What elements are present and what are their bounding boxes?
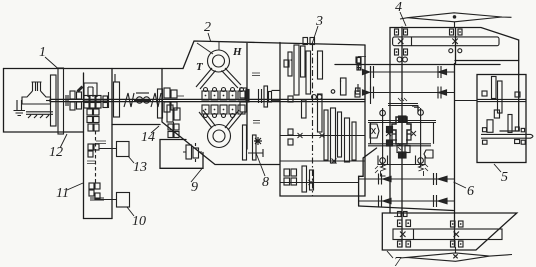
wire unit 4 lower line a (455, 60, 519, 62)
rail 1 gap bars right (438, 66, 441, 78)
gear row lower bumps (204, 114, 208, 118)
tiny ratio annotation e (394, 216, 400, 218)
bearing circle top right (418, 110, 424, 116)
x mark bar 4 right (452, 39, 458, 45)
rail 3 left gap bars (379, 174, 382, 185)
node strip 11 left edge (83, 73, 85, 219)
gear row on strip top (84, 96, 89, 102)
gear pair dots unit 7 (399, 222, 401, 224)
shaft tick pair (108, 92, 110, 108)
index tag right (424, 150, 433, 158)
box unit 2 outline (162, 69, 279, 165)
leader 8 (256, 153, 265, 176)
gear square 5-8 (483, 128, 487, 132)
gear cluster in box 9 (186, 145, 192, 159)
gear pair 7 below-left (398, 241, 403, 247)
leader 2 (208, 33, 211, 41)
gear bar 5-3 (487, 120, 493, 133)
gear pair 4 below-bar-left (395, 49, 399, 55)
rail 3 arrow (438, 176, 447, 182)
wire housing outline left of table (359, 148, 377, 206)
wire belt shaft (134, 100, 151, 102)
leader 1 (45, 57, 59, 69)
gear bar 3-13 (345, 118, 350, 162)
gear dots box 2 rows (205, 95, 207, 97)
wire main horizontal shaft (50, 99, 365, 101)
gear bar 5-1 (492, 77, 497, 99)
platform end wall left (370, 123, 372, 144)
rail 2 gap bars right (438, 87, 441, 99)
gearbox 3 centre line (312, 45, 314, 196)
leader 4 (400, 12, 406, 26)
rail 2 link tie (357, 84, 359, 92)
leader 14 (151, 126, 159, 133)
circle pair 3 (312, 95, 317, 100)
gear square 5-13 (521, 140, 525, 144)
rail 3 gap bars (434, 173, 437, 185)
gear bar 3-4 (306, 51, 311, 94)
shaft of motor (46, 100, 51, 102)
x mark bar 4 left (398, 39, 404, 45)
svg-text:5: 5 (501, 170, 508, 185)
gear train strip 11 middle (88, 144, 93, 150)
gear pair 7 above-right (451, 221, 456, 227)
gear bar 3-11 (331, 108, 336, 163)
bar 7 divider (413, 229, 415, 240)
table gear pair below (397, 146, 402, 153)
clutch fork bracket (84, 83, 97, 97)
box unit 2 top (183, 41, 365, 149)
svg-text:14: 14 (141, 130, 155, 145)
wire unit 4 lower line b (335, 64, 500, 66)
coupling gap right of box 2 (259, 89, 262, 103)
mesh x 3a (298, 133, 303, 138)
tiny ratio annotation b (87, 161, 96, 164)
bearing circle bottom right (418, 158, 424, 164)
index tag left (370, 124, 379, 138)
wire shaft to box 5 (455, 100, 478, 102)
gear square 3-17 (284, 178, 290, 185)
leader 5 (494, 164, 501, 172)
leader 7 (387, 251, 393, 258)
gear pair 4 top-left (395, 29, 399, 35)
feed rail 2 (363, 92, 455, 94)
pen stroke mark (77, 86, 83, 92)
wire housing bottom edge (359, 206, 454, 211)
svg-text:4: 4 (395, 0, 402, 15)
mesh x 3c (332, 159, 337, 164)
worm pair above centre (399, 116, 402, 122)
gear bar 3-1 (288, 52, 292, 76)
wire wheel to top edge box 2 (197, 42, 219, 55)
wire rail gap connector (370, 66, 372, 104)
clutch disc 2 (58, 68, 64, 134)
gear train strip 11 lower (89, 183, 94, 189)
wire screw to gear 7 (455, 247, 457, 253)
box unit 5 outline (477, 75, 526, 163)
box 10 (117, 193, 130, 208)
wire shaft 3 low (280, 160, 365, 162)
svg-text:10: 10 (132, 214, 146, 229)
differential post right (420, 108, 422, 167)
gear bar 3-8 (302, 100, 307, 118)
adjust star 8 (254, 137, 262, 145)
svg-text:9: 9 (191, 180, 198, 195)
gear pair on box3 edge rail1 (356, 57, 361, 63)
gearbox 2 top wheel inner (213, 55, 225, 67)
gear bar 3-14 (352, 122, 356, 160)
gear square 3-20 (288, 129, 293, 135)
svg-text:3: 3 (315, 14, 323, 29)
rail 4 arrow (438, 198, 447, 204)
wire top line of unit 1 (4, 68, 184, 70)
gear pair on box3 edge rail2 (356, 88, 361, 94)
tiny ratio annotation d (358, 56, 366, 58)
gear square 5-6 (482, 91, 487, 96)
leader 10 (127, 207, 134, 216)
node strip 11 right edge (111, 69, 113, 219)
wire shaft 3 mid (280, 135, 365, 137)
wire shaft 3 bottom (280, 182, 358, 184)
rail 1 arrow right (439, 69, 447, 74)
gear bar 8a (243, 125, 247, 160)
pulley bar (114, 82, 120, 117)
gear square 5-7 (515, 92, 520, 97)
bed bar divider (411, 37, 413, 46)
worm shaft bottom (388, 164, 417, 166)
gear bar 3-22 (357, 58, 361, 64)
wire belt region bottom (112, 124, 160, 126)
leader 9 (191, 169, 202, 183)
lead screw diamond top (400, 13, 512, 22)
leader 3 (312, 26, 318, 44)
motor M1 base (26, 112, 53, 118)
hanging gear pair 14 (167, 105, 173, 122)
rail 2 arrow left (363, 90, 370, 95)
gear pair 7 top edge (398, 212, 402, 217)
mesh x 3b (320, 133, 325, 138)
hatch below left bearing (375, 166, 378, 173)
gearbox 2 top wheel outer (208, 50, 230, 72)
leader 12 (60, 134, 67, 148)
box unit 7 outline (382, 213, 517, 250)
gear bar 3-5 (318, 51, 323, 79)
table drive top bars (388, 104, 418, 106)
box unit 3 outline (280, 43, 365, 197)
svg-text:2: 2 (204, 20, 211, 35)
bearing circle top left (380, 110, 386, 116)
wire vertical shaft A (x=402) (401, 27, 403, 247)
ground symbol (14, 100, 26, 116)
gear bar 5-4 (494, 110, 499, 118)
table platform lower bar (368, 144, 431, 146)
motor M1 stepped body (22, 91, 51, 104)
svg-text:7: 7 (394, 255, 402, 267)
box unit 9 outline (160, 140, 203, 169)
gear pair 7 above-left (398, 220, 403, 227)
wire strip 11 bottom (84, 218, 113, 220)
spring post left (381, 163, 386, 176)
box 13 (117, 142, 130, 157)
dashed feed shaft 14 (173, 122, 175, 138)
gear row upper bumps (204, 88, 208, 92)
svg-text:12: 12 (49, 145, 63, 160)
spring post right (419, 163, 424, 176)
differential cross body (392, 117, 411, 144)
tiny ratio annotation f (414, 107, 420, 109)
gear bar 3-15 (341, 78, 347, 95)
gear square 3-24 (355, 91, 360, 97)
motor M1 prongs (32, 82, 42, 91)
gearbox 2 bottom wheel outer (208, 125, 231, 148)
gear square 5-10 (521, 128, 524, 131)
x mark bar 7 right (454, 232, 460, 238)
tiny ratio text lower (253, 121, 260, 124)
tiny ratio text upper (252, 73, 260, 76)
dashed vertical chain 11 (95, 131, 97, 183)
bed bar unit 4 (393, 37, 499, 46)
hatch above shaft A (398, 98, 407, 101)
feed rail 4 (359, 200, 455, 202)
gear cluster on shaft in box 1 (66, 95, 68, 106)
pulley bar right (158, 89, 163, 118)
right gear cluster box 2 (240, 88, 247, 98)
gear square 3-21 (288, 139, 293, 145)
mesh x right (411, 131, 416, 136)
mesh x 3d (309, 180, 314, 185)
rail 4 left gap bars (379, 196, 382, 207)
gear bar 3-12 (338, 112, 342, 157)
clutch disc 1 (51, 75, 57, 126)
gear train in strip 11 upper (87, 109, 93, 115)
gear pair 7 below-right (451, 241, 456, 247)
leader 6 (454, 182, 467, 188)
gear pair on top edge of box 3 (303, 38, 308, 45)
worm wheel pair left lower (387, 140, 393, 146)
gear pair 4 below-bar-right (449, 49, 453, 53)
hatch right of right bearing (425, 164, 428, 171)
gear square 3-6 (284, 60, 289, 67)
bracket upper right (412, 106, 418, 112)
table bar unit 7 (393, 229, 502, 240)
rail 1 link tie (357, 63, 360, 70)
wire vertical shaft B (x=454.5) (455, 28, 456, 247)
rail 1 arrow left (363, 69, 370, 74)
gear row lower in box 2 (202, 105, 209, 114)
gear bar 5-5 (508, 115, 512, 133)
rail 2 gap bars left (371, 87, 374, 99)
gear square 5-12 (515, 140, 520, 144)
belt zigzag 2 (151, 93, 161, 107)
gear bar 3-19 (310, 170, 314, 190)
box unit 1 outline (4, 69, 84, 133)
worm wheel pair left upper (387, 127, 393, 133)
gear bar 3-9 (318, 94, 323, 132)
gear bar 3-2 (294, 45, 299, 95)
screw centre mark top (453, 16, 455, 18)
gear cluster feed 14 (168, 124, 173, 130)
gear square 5-11 (483, 140, 488, 144)
leader 13 (128, 156, 134, 163)
rail 4 left arrow (383, 198, 391, 203)
platform end wall right (433, 123, 435, 144)
box unit 4 outline (390, 28, 519, 214)
tiny ratio annotation c (177, 95, 184, 97)
vertical shaft hatch mid (398, 143, 401, 150)
gear bar 3-23 (340, 80, 342, 82)
gear pair 4 top-right (450, 29, 454, 35)
left gear cluster box 2 (164, 88, 170, 98)
svg-text:1: 1 (39, 45, 46, 60)
bearing circle bottom left (380, 158, 386, 164)
wire to box 13 (99, 148, 117, 150)
link arm upper left (196, 68, 216, 89)
hob shaft in box 5 (477, 99, 526, 101)
gear bar 3-3 (301, 46, 306, 77)
link arm lower right (225, 110, 243, 130)
rail 3 left arrow (383, 176, 391, 181)
leader 11 (67, 183, 83, 190)
idler circle box 3 (331, 90, 335, 94)
mesh x left (386, 131, 391, 136)
bevel pair on shaft A (397, 57, 402, 62)
gear pair dots unit 4 (396, 31, 398, 33)
svg-text:11: 11 (56, 186, 69, 201)
rail 2 arrow right (439, 90, 447, 95)
gear row upper in box 2 (202, 91, 209, 100)
svg-text:6: 6 (467, 184, 474, 199)
feed rail 1 (363, 71, 455, 73)
gear square 3-7 (288, 96, 293, 102)
bearing cup left (378, 156, 388, 165)
differential post left (382, 108, 384, 167)
clutch circles (136, 92, 149, 94)
bell crank right (406, 131, 411, 140)
worm pair below centre (399, 152, 402, 158)
gear bar 3-18 (302, 166, 307, 192)
bearing cup right (416, 156, 426, 165)
right dark bar box 2 (246, 90, 249, 103)
wire shaft 8 (248, 149, 263, 157)
svg-text:13: 13 (133, 160, 147, 175)
gear bar 8b (253, 135, 257, 160)
table platform upper bar (368, 121, 436, 123)
link arm lower left (199, 110, 216, 128)
wire to box 10 (100, 199, 117, 201)
gear pair between 2 and 3 (264, 86, 268, 107)
gear square 3-16 (284, 169, 290, 176)
link arm upper right (222, 68, 242, 88)
tiny ratio annotation a (96, 141, 106, 144)
rail 4 gap bars (434, 195, 437, 207)
gear square 5-9 (515, 127, 519, 131)
feed rail 3 (359, 178, 455, 180)
svg-text:8: 8 (262, 175, 269, 190)
svg-text:Н: Н (232, 46, 242, 58)
gear bar 3-10 (324, 110, 328, 160)
bell crank left (392, 131, 397, 140)
output arbor box 5 (481, 134, 533, 138)
gear bar 5-2 (498, 81, 503, 113)
x mark bar 7 left (400, 232, 406, 238)
screw centre mark bottom (453, 254, 457, 258)
gearbox 2 bottom wheel inner (213, 130, 225, 142)
belt zigzag 1 (124, 93, 134, 107)
lead screw diamond bottom (400, 253, 512, 261)
rail 1 gap bars left (371, 66, 374, 78)
